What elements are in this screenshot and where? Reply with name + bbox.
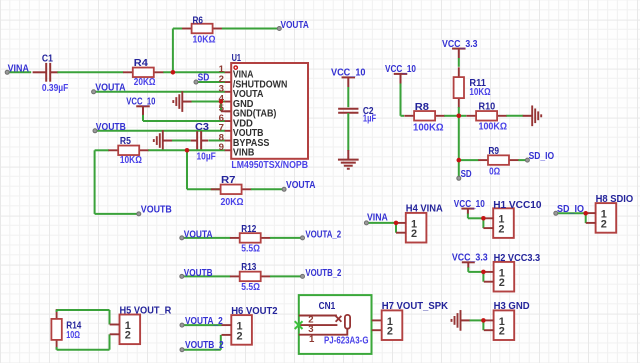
svg-text:SD: SD (461, 169, 472, 180)
svg-text:VOUTA_2: VOUTA_2 (185, 316, 223, 327)
svg-text:2: 2 (499, 277, 505, 289)
svg-text:C3: C3 (195, 122, 209, 133)
svg-text:20KΩ: 20KΩ (134, 77, 156, 88)
svg-text:VCC_10: VCC_10 (126, 96, 155, 107)
svg-text:VCC_10: VCC_10 (385, 64, 416, 75)
svg-text:R4: R4 (134, 58, 148, 69)
svg-text:2: 2 (499, 326, 505, 338)
svg-text:VCC_3.3: VCC_3.3 (442, 39, 478, 50)
svg-text:2: 2 (237, 330, 243, 342)
svg-text:R5: R5 (120, 136, 131, 147)
svg-text:H3 GND: H3 GND (494, 301, 530, 312)
svg-text:VCC_10: VCC_10 (454, 199, 485, 210)
svg-text:H1 VCC10: H1 VCC10 (493, 200, 542, 211)
svg-text:1: 1 (309, 334, 315, 345)
svg-text:0.39µF: 0.39µF (42, 83, 68, 94)
svg-text:H5 VOUT_R: H5 VOUT_R (120, 306, 172, 317)
svg-text:R10: R10 (479, 101, 496, 112)
svg-text:U1: U1 (232, 53, 242, 64)
svg-text:VCC_3.3: VCC_3.3 (452, 252, 488, 263)
svg-text:10KΩ: 10KΩ (193, 35, 216, 46)
svg-text:10µF: 10µF (197, 152, 216, 163)
svg-text:VOUTA: VOUTA (286, 180, 316, 191)
svg-text:H4 VINA: H4 VINA (406, 203, 443, 214)
svg-text:VOUTB: VOUTB (184, 268, 213, 279)
svg-text:9: 9 (219, 142, 224, 153)
svg-text:R12: R12 (241, 224, 256, 235)
svg-text:5.5Ω: 5.5Ω (241, 282, 260, 293)
svg-text:0Ω: 0Ω (489, 166, 500, 177)
svg-text:5.5Ω: 5.5Ω (241, 244, 260, 255)
svg-text:VINB: VINB (233, 148, 255, 159)
svg-text:2: 2 (411, 228, 417, 240)
svg-text:H2 VCC3.3: H2 VCC3.3 (494, 253, 541, 264)
svg-text:100KΩ: 100KΩ (413, 123, 444, 134)
svg-text:VOUTB: VOUTB (141, 204, 172, 215)
svg-text:H8 SDIO: H8 SDIO (596, 194, 634, 205)
svg-text:VOUTB_2: VOUTB_2 (185, 340, 224, 351)
svg-text:R8: R8 (415, 102, 429, 113)
svg-text:10KΩ: 10KΩ (469, 87, 490, 98)
svg-text:C1: C1 (42, 53, 53, 64)
svg-text:1µF: 1µF (363, 114, 376, 125)
svg-text:SD_IO: SD_IO (557, 204, 584, 215)
svg-text:R6: R6 (193, 16, 204, 27)
svg-text:VOUTB: VOUTB (96, 122, 127, 133)
svg-text:10KΩ: 10KΩ (120, 155, 142, 166)
svg-text:VOUTA: VOUTA (281, 20, 310, 31)
svg-text:2: 2 (601, 218, 607, 230)
svg-text:10Ω: 10Ω (66, 330, 80, 341)
svg-text:VINA: VINA (8, 63, 30, 74)
svg-text:R9: R9 (488, 146, 499, 157)
svg-text:CN1: CN1 (319, 301, 336, 312)
svg-text:VOUTA: VOUTA (184, 229, 213, 240)
svg-text:2: 2 (498, 224, 504, 236)
svg-text:VOUTA_2: VOUTA_2 (305, 229, 341, 240)
svg-text:SD_IO: SD_IO (529, 151, 555, 162)
svg-text:20KΩ: 20KΩ (221, 197, 244, 208)
svg-text:SD: SD (198, 73, 210, 84)
svg-text:2: 2 (387, 326, 393, 338)
svg-text:PJ-623A3-G: PJ-623A3-G (324, 336, 369, 347)
svg-text:100KΩ: 100KΩ (479, 121, 508, 132)
svg-text:VINA: VINA (367, 213, 388, 224)
svg-text:LM4950TSX/NOPB: LM4950TSX/NOPB (231, 160, 308, 171)
svg-text:R13: R13 (241, 262, 256, 273)
svg-text:VOUTB_2: VOUTB_2 (305, 268, 341, 279)
svg-text:2: 2 (125, 330, 131, 342)
svg-text:H6 VOUT2: H6 VOUT2 (231, 306, 278, 317)
svg-text:R7: R7 (221, 175, 236, 186)
svg-text:H7 VOUT_SPK: H7 VOUT_SPK (382, 301, 449, 312)
svg-text:VCC_10: VCC_10 (331, 67, 366, 78)
svg-text:VOUTA: VOUTA (95, 83, 126, 94)
